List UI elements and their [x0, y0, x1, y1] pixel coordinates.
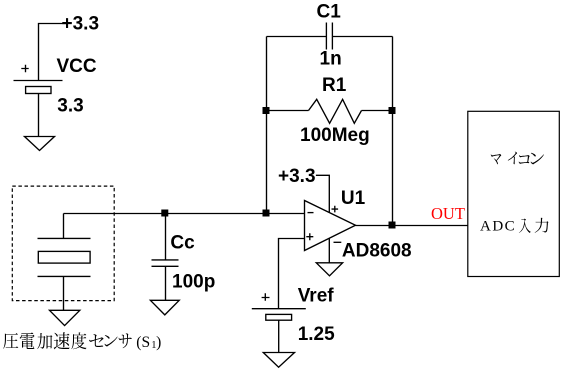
ground VCC [25, 137, 55, 151]
piezo sensor top lead [63, 214, 65, 239]
label piezo acceleration sensor (kanji) [3, 332, 132, 349]
junction output at feedback [389, 222, 396, 229]
label (S1) sensor designator [136, 334, 161, 351]
svg-text:ADC: ADC [480, 219, 516, 235]
wire Cc to ground [165, 266, 167, 300]
ground sensor [50, 310, 80, 325]
wire R1 left [267, 110, 309, 112]
wire Cc top lead [165, 214, 167, 260]
svg-text:): ) [156, 334, 161, 351]
junction feedback right at R1 [389, 107, 396, 114]
svg-text:100Meg: 100Meg [300, 125, 370, 146]
piezo sensor top plate [38, 237, 91, 239]
battery VCC top plate [14, 80, 63, 82]
svg-text:C1: C1 [317, 2, 342, 23]
battery VCC body [26, 87, 51, 94]
battery VCC plus marker [21, 65, 28, 72]
op-amp U1 V+ pin plus marker [332, 206, 339, 213]
wire Vref non-inverting input [279, 239, 305, 309]
svg-text:AD8608: AD8608 [342, 241, 412, 262]
wire C1 left [267, 36, 327, 38]
svg-text:VCC: VCC [57, 56, 97, 77]
svg-text:+3.3: +3.3 [62, 14, 100, 35]
junction node IN at feedback [263, 210, 270, 217]
wire VCC battery to ground [38, 94, 40, 137]
wire node IN horizontal [64, 213, 305, 215]
microcontroller box [468, 111, 560, 276]
junction node IN at Cc [161, 210, 168, 217]
op-amp U1 inverting input marker [308, 212, 314, 214]
op-amp U1 non-inverting input marker [306, 233, 313, 240]
wire feedback right vertical [392, 37, 394, 226]
wire Vref to ground [278, 320, 280, 352]
svg-text:100p: 100p [172, 271, 215, 292]
svg-text:Cc: Cc [170, 233, 195, 254]
label ADC nyuryoku (ADC input kanji) [519, 218, 549, 233]
ground Vref [263, 353, 294, 368]
op-amp U1 V- pin minus marker [334, 241, 342, 243]
svg-text:Vref: Vref [298, 286, 335, 307]
svg-text:3.3: 3.3 [57, 96, 83, 117]
svg-text:U1: U1 [341, 188, 366, 209]
capacitor C1 plates [326, 23, 332, 50]
capacitor Cc plates [152, 260, 179, 266]
op-amp U1 triangle [305, 201, 356, 251]
svg-text:(S: (S [136, 334, 150, 351]
label maikon (microcontroller) [491, 152, 544, 165]
wire C1 right [332, 36, 392, 38]
piezo sensor bottom plate [38, 275, 91, 277]
svg-text:+3.3: +3.3 [278, 166, 316, 187]
svg-text:1n: 1n [320, 49, 342, 70]
ground op-amp [316, 263, 342, 276]
wire output OUT [356, 225, 468, 227]
resistor R1 zigzag [309, 99, 362, 123]
battery Vref plus marker [262, 293, 270, 300]
wire op-amp V+ supply [316, 175, 329, 212]
battery Vref body [266, 314, 292, 320]
wire feedback left vertical [266, 37, 268, 214]
junction feedback left at R1 [263, 107, 270, 114]
ground Cc [150, 300, 179, 315]
svg-text:OUT: OUT [431, 204, 465, 223]
sensor box (dashed) S1 [12, 186, 114, 301]
svg-text:R1: R1 [322, 75, 347, 96]
svg-text:1.25: 1.25 [298, 324, 335, 345]
wire op-amp V- to ground [328, 238, 330, 263]
battery Vref top plate [252, 308, 306, 310]
piezo sensor crystal body [38, 251, 90, 263]
wire R1 right [362, 110, 393, 112]
wire piezo to ground [63, 276, 65, 310]
wire VCC +3.3 flag to battery [39, 24, 67, 81]
